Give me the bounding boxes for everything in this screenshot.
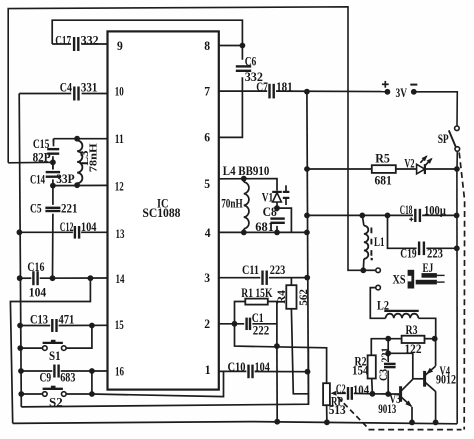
svg-text:C16: C16 (27, 260, 44, 274)
svg-text:V1: V1 (262, 190, 274, 204)
svg-text:XS: XS (393, 273, 406, 287)
svg-text:222: 222 (253, 324, 269, 338)
svg-text:V2: V2 (404, 157, 414, 171)
svg-text:C14: C14 (30, 173, 46, 187)
svg-text:104: 104 (255, 360, 271, 374)
svg-text:L4 BB910: L4 BB910 (223, 164, 269, 178)
svg-text:562: 562 (296, 289, 310, 306)
svg-text:681: 681 (375, 173, 392, 187)
svg-text:S2: S2 (49, 396, 63, 410)
svg-text:C4: C4 (60, 80, 73, 94)
svg-text:683: 683 (60, 370, 75, 384)
svg-text:C6: C6 (245, 54, 257, 68)
svg-text:6: 6 (204, 131, 210, 145)
svg-text:331: 331 (81, 80, 98, 94)
svg-text:104: 104 (81, 220, 97, 234)
svg-text:3V: 3V (396, 86, 408, 100)
svg-text:332: 332 (81, 34, 99, 48)
svg-text:C9: C9 (40, 370, 52, 384)
svg-text:R5: R5 (375, 152, 390, 166)
svg-text:L1: L1 (374, 235, 385, 249)
svg-text:154: 154 (352, 363, 369, 377)
svg-text:C11: C11 (242, 263, 259, 277)
svg-text:33P: 33P (56, 172, 75, 186)
svg-text:82P: 82P (33, 151, 51, 165)
svg-text:C5: C5 (30, 201, 42, 215)
svg-text:L2: L2 (377, 299, 389, 313)
svg-text:104: 104 (353, 383, 370, 397)
svg-text:C12: C12 (60, 220, 74, 234)
svg-text:EJ: EJ (423, 261, 434, 275)
svg-text:223: 223 (427, 247, 443, 261)
svg-text:R4: R4 (274, 290, 288, 304)
svg-text:C18: C18 (400, 203, 413, 217)
svg-text:C3: C3 (376, 369, 390, 381)
svg-text:C17: C17 (55, 34, 71, 48)
svg-text:R1 15K: R1 15K (241, 286, 272, 300)
svg-text:C15: C15 (33, 137, 50, 151)
svg-text:13: 13 (116, 227, 125, 241)
svg-text:15: 15 (115, 318, 124, 332)
svg-text:681: 681 (255, 220, 274, 234)
svg-text:5: 5 (204, 177, 210, 191)
svg-text:12: 12 (115, 180, 124, 194)
svg-text:221: 221 (61, 202, 78, 216)
svg-text:C19: C19 (400, 247, 416, 261)
svg-text:C8: C8 (263, 205, 277, 219)
svg-text:78nH: 78nH (87, 143, 99, 172)
svg-text:4: 4 (205, 226, 211, 240)
svg-text:C7: C7 (256, 80, 268, 94)
svg-text:221: 221 (378, 348, 392, 363)
svg-text:8: 8 (204, 39, 210, 53)
svg-text:14: 14 (116, 272, 126, 286)
svg-text:10: 10 (115, 85, 124, 99)
svg-text:100μ: 100μ (424, 203, 446, 217)
svg-text:9013: 9013 (378, 402, 396, 416)
svg-text:1: 1 (205, 363, 211, 377)
svg-text:C10: C10 (228, 360, 246, 374)
svg-text:2: 2 (204, 317, 210, 331)
svg-text:16: 16 (115, 365, 124, 379)
svg-text:SC1088: SC1088 (142, 206, 180, 220)
svg-text:70nH: 70nH (221, 196, 243, 210)
svg-text:C2: C2 (336, 382, 346, 396)
svg-text:7: 7 (204, 85, 210, 99)
svg-text:223: 223 (270, 263, 286, 277)
svg-text:104: 104 (29, 285, 47, 299)
svg-text:C13: C13 (30, 312, 48, 326)
svg-text:471: 471 (59, 312, 75, 326)
svg-text:S1: S1 (49, 349, 61, 363)
svg-text:R3: R3 (406, 323, 418, 337)
svg-text:9: 9 (117, 39, 123, 53)
svg-text:9012: 9012 (436, 373, 456, 387)
svg-text:122: 122 (405, 342, 422, 356)
svg-text:181: 181 (276, 80, 293, 94)
svg-text:3: 3 (204, 271, 210, 285)
svg-text:11: 11 (115, 132, 124, 146)
svg-text:SP: SP (438, 132, 449, 146)
svg-text:513: 513 (329, 403, 346, 417)
